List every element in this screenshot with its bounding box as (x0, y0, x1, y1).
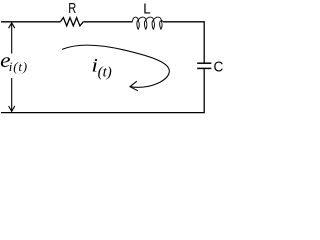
resistor R (60, 18, 83, 26)
voltage arrow down (e_i(t)) (9, 78, 15, 111)
current arrowhead (130, 81, 138, 91)
wire top-right segment (163, 21, 204, 23)
wire right upper segment (203, 21, 205, 62)
svg-text:(t): (t) (98, 65, 112, 81)
wire top-left segment (1, 21, 60, 23)
wire top-middle segment (83, 21, 132, 23)
wire right lower segment (203, 69, 205, 113)
wire bottom segment (1, 112, 204, 114)
svg-text:R: R (68, 0, 76, 17)
svg-text:L: L (143, 1, 150, 18)
svg-text:i(t): i(t) (9, 59, 28, 74)
capacitor C (197, 62, 211, 64)
current swoosh arrow i(t) (62, 45, 169, 87)
inductor L (132, 17, 163, 29)
svg-text:C: C (214, 59, 224, 75)
voltage arrow up (e_i(t)) (9, 23, 15, 54)
